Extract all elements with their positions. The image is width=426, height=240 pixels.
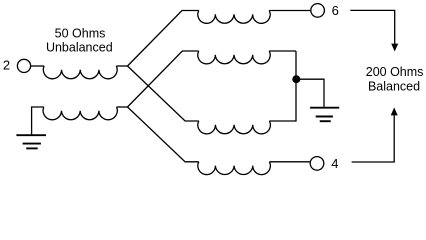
svg-text:Unbalanced: Unbalanced bbox=[46, 40, 113, 54]
svg-text:50 Ohms: 50 Ohms bbox=[55, 26, 106, 40]
svg-text:Balanced: Balanced bbox=[368, 80, 420, 94]
svg-text:4: 4 bbox=[331, 156, 338, 171]
svg-text:6: 6 bbox=[332, 3, 339, 18]
svg-text:200 Ohms: 200 Ohms bbox=[366, 65, 424, 79]
svg-text:2: 2 bbox=[3, 58, 10, 73]
